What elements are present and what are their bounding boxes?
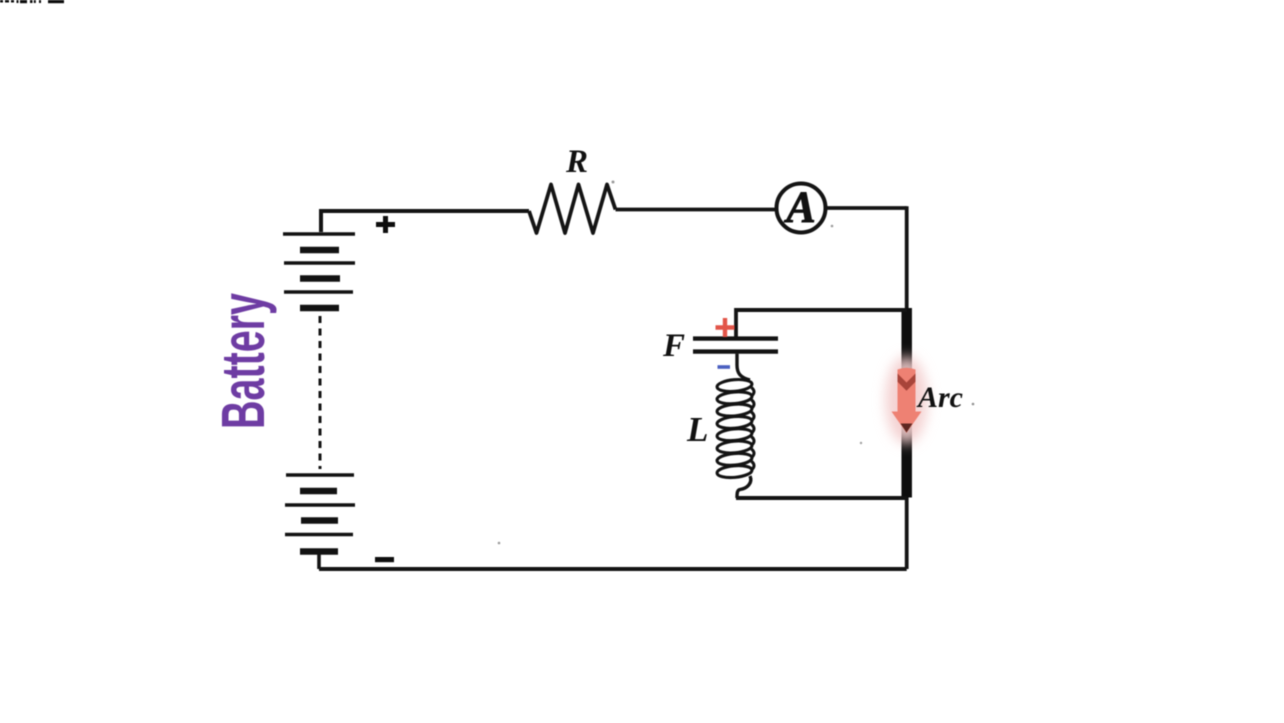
resistor R [529, 185, 616, 234]
arc arrow glow [886, 356, 928, 444]
faint speck right of ammeter [831, 225, 834, 228]
wire resistor to ammeter [616, 208, 778, 212]
polarity minus (blue) [718, 365, 731, 369]
battery B1 top cell plates [283, 234, 355, 308]
polarity plus (red) [716, 318, 735, 337]
wire bottom-left (battery - down) [317, 554, 321, 569]
svg-text:F: F [662, 328, 685, 364]
wire sub-loop bottom [736, 496, 907, 500]
wire coil to sub-loop bottom [737, 476, 751, 498]
wire bottom [319, 567, 907, 571]
plus terminal mark [376, 216, 395, 233]
svg-text:L: L [686, 410, 708, 449]
faint speck in sub-loop [860, 442, 862, 444]
battery B1 bottom cell plates [285, 475, 355, 552]
speck after Arc label [972, 403, 975, 406]
svg-text:R: R [565, 144, 588, 180]
battery dashed middle link [319, 316, 322, 469]
capacitor F plates [693, 339, 778, 352]
svg-text:Battery: Battery [209, 293, 277, 429]
faint speck lower left [498, 542, 501, 545]
wire right vertical [905, 206, 909, 569]
svg-text:Arc: Arc [916, 381, 963, 414]
wire capacitor feed [734, 308, 738, 337]
faint speck near resistor [612, 181, 615, 184]
arc arrow dark tip [901, 424, 913, 433]
wire capacitor to coil [737, 354, 750, 380]
wire sub-loop top [736, 308, 907, 312]
cropped text fragment top-left [0, 0, 64, 3]
svg-text:A: A [783, 183, 815, 232]
wire right thick segment (arc branch) [901, 308, 912, 498]
arc arrow dark chevron [898, 374, 916, 391]
wire top-left (battery + to resistor) [321, 211, 529, 232]
minus terminal mark [375, 557, 394, 562]
wire ammeter to top-right corner [826, 206, 907, 210]
ammeter A1 circle [777, 184, 826, 233]
inductor L coil [717, 378, 754, 479]
arc arrow body [892, 368, 922, 433]
